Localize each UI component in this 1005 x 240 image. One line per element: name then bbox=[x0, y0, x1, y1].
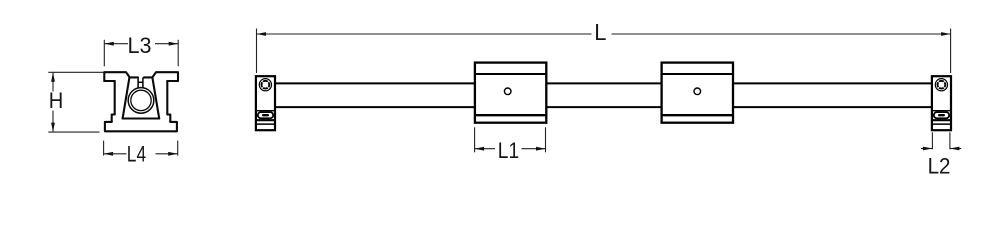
svg-text:L4: L4 bbox=[127, 142, 146, 167]
svg-text:L: L bbox=[594, 19, 606, 45]
svg-text:L1: L1 bbox=[498, 138, 519, 163]
svg-text:H: H bbox=[49, 88, 64, 113]
svg-text:L2: L2 bbox=[928, 154, 951, 179]
svg-text:L3: L3 bbox=[128, 33, 152, 58]
